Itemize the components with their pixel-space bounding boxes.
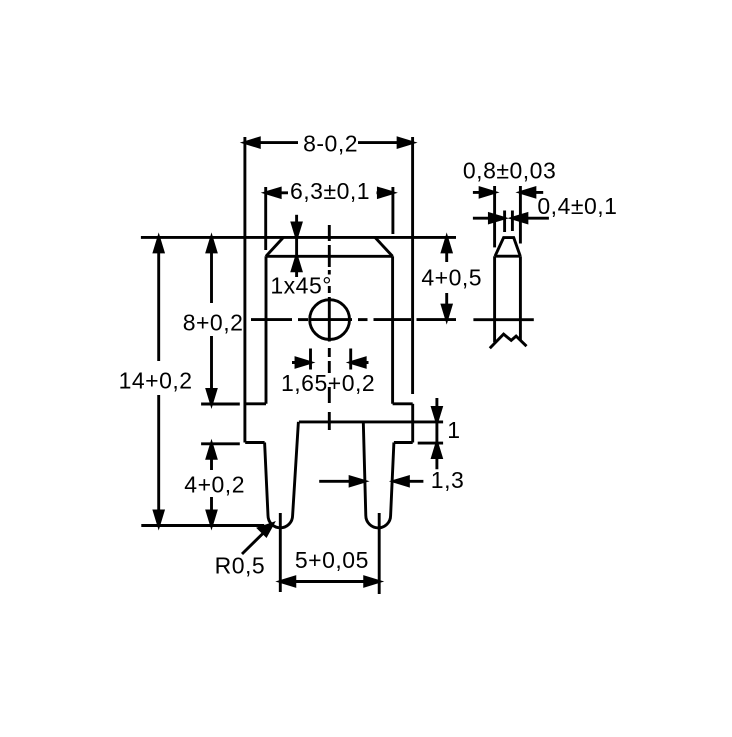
R0,5 leader line	[242, 524, 273, 554]
shoulder top left edge	[245, 402, 266, 405]
svg-text:0,8±0,03: 0,8±0,03	[463, 157, 556, 183]
bottom reference extension line	[141, 524, 264, 527]
side view tip trapezoid	[495, 238, 520, 257]
side view: 0,8 extension line right	[519, 186, 522, 244]
hole	[310, 300, 350, 340]
shoulder bottom right edge	[394, 441, 413, 444]
blade right side	[391, 256, 394, 404]
svg-text:0,4±0,1: 0,4±0,1	[537, 193, 617, 219]
dimension 1,65 extension tick left	[309, 349, 312, 370]
svg-text:6,3±0,1: 6,3±0,1	[290, 178, 370, 204]
side view left side	[493, 256, 496, 342]
side view tip base line	[495, 255, 521, 258]
dimension 1,65 line	[292, 358, 369, 367]
dimension 1 extension line (shoulder bottom right)	[418, 442, 443, 445]
dimension 1,3 line	[319, 477, 423, 486]
right leg outline	[363, 422, 394, 528]
chamfer 1x45 dimension leader	[292, 215, 301, 277]
svg-text:4+0,2: 4+0,2	[184, 472, 245, 498]
web bottom edge with right extension	[299, 420, 443, 423]
dimension 8-0,2 line	[245, 138, 413, 147]
svg-text:4+0,5: 4+0,5	[421, 264, 482, 290]
side view: 0,8 extension line left	[493, 186, 496, 247]
chamfer base line	[266, 255, 393, 258]
side view: 0,4 extension line left	[503, 211, 506, 233]
left leg centerline	[279, 513, 282, 592]
dimension 14+0,2 line	[154, 237, 163, 525]
svg-text:1x45°: 1x45°	[270, 273, 332, 299]
dimension 4+0,5 line	[442, 237, 451, 319]
dimension 8-0,2 extension line left	[243, 137, 246, 443]
dimension 8-0,2 extension line right	[411, 137, 414, 394]
shoulder top right edge	[393, 402, 413, 405]
dimension 8+0,2 extension line	[201, 403, 240, 406]
dimension 6,3 line	[266, 188, 393, 197]
svg-text:1: 1	[447, 417, 460, 443]
svg-text:8+0,2: 8+0,2	[183, 310, 244, 336]
dimension 0,8 line	[473, 188, 543, 197]
shoulder right side	[411, 404, 414, 443]
svg-text:1,65+0,2: 1,65+0,2	[281, 370, 375, 396]
right chamfer edge	[375, 237, 393, 256]
right leg centerline	[378, 513, 381, 594]
side view break zigzag	[490, 334, 527, 348]
vertical centerline	[328, 225, 331, 430]
dimension 5+0,05 line	[280, 577, 379, 586]
dimension 4+0,2 line	[207, 444, 216, 526]
left chamfer edge	[266, 237, 284, 256]
blade left side	[265, 256, 268, 404]
dimension 4+0,2 extension line	[201, 442, 240, 445]
svg-text:8-0,2: 8-0,2	[303, 130, 358, 156]
side view: 0,4 extension line right	[511, 211, 514, 232]
top reference line (part top edge + extension both sides)	[141, 236, 456, 239]
svg-text:1,3: 1,3	[431, 467, 464, 493]
side view right side	[519, 256, 522, 340]
dimension 1,65 extension tick right	[349, 349, 352, 370]
svg-text:5+0,05: 5+0,05	[295, 547, 369, 573]
left leg outline	[265, 422, 299, 528]
side view centerline	[473, 318, 533, 321]
dimension 6,3 extension line right	[391, 187, 394, 234]
dimension 6,3 extension line left	[264, 187, 267, 250]
dimension 8+0,2 line	[207, 237, 216, 404]
horizontal centerline through hole	[251, 318, 456, 321]
shoulder bottom left edge	[245, 441, 264, 444]
dimension 0,4 line	[473, 214, 549, 223]
dimension 1 line	[433, 398, 442, 469]
svg-text:14+0,2: 14+0,2	[119, 367, 193, 393]
svg-text:R0,5: R0,5	[215, 553, 266, 579]
